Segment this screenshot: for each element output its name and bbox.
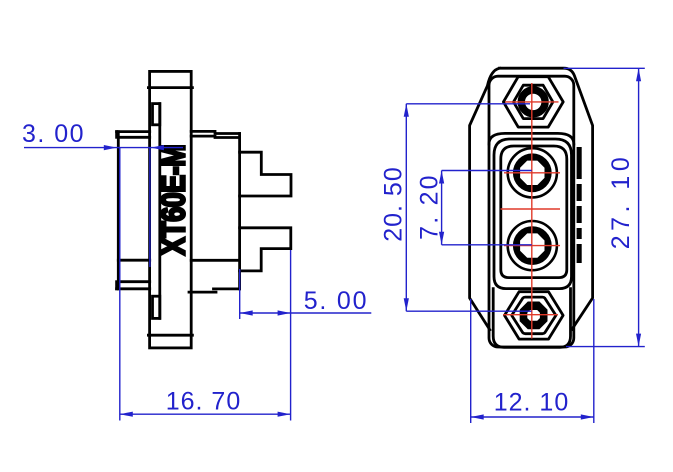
arrow 27.10 top	[636, 68, 641, 81]
dim 3.00 line	[24, 147, 183, 149]
svg-text:27. 10: 27. 10	[607, 153, 635, 250]
arrow 3.00 right (points left to face)	[151, 145, 164, 150]
arrowheads	[104, 68, 641, 419]
nut boss profile top	[153, 104, 160, 125]
svg-text:12. 10: 12. 10	[494, 389, 570, 417]
arrow 20.50 bottom	[404, 298, 409, 311]
raised center pad (full height rounded rect)	[489, 76, 574, 347]
shroud top inner line	[118, 136, 149, 139]
ext line left shared (3.00/16.70)	[119, 148, 121, 421]
nut boss profile bottom	[153, 296, 160, 318]
shroud bottom inner line	[118, 280, 149, 283]
arrow 3.00 left (points right to face)	[104, 145, 117, 150]
dim 7.20 line	[441, 171, 443, 245]
housing outer	[494, 139, 572, 289]
ext line 3.00 right	[149, 148, 151, 267]
flange top cap line	[148, 86, 192, 89]
arrow 16.70 right	[278, 412, 291, 417]
arrow 12.10 left	[471, 414, 484, 419]
top hex horizontal centerline	[505, 101, 559, 103]
ext 7.20 top	[442, 170, 532, 172]
top contact horizontal centerline	[504, 172, 560, 174]
hex nut top inner	[514, 85, 553, 118]
upper prong outline	[240, 152, 291, 196]
body top lip lower	[191, 136, 239, 137]
dim 5.00 line	[240, 312, 372, 314]
ext 27.10 bottom	[566, 346, 645, 348]
svg-text:XT60E-M: XT60E-M	[156, 145, 192, 256]
main vertical centerline	[531, 83, 533, 339]
contact bottom thick ring with octagonal hole	[513, 226, 552, 265]
collar arc where housing meets pad	[489, 133, 574, 144]
ext 12.10 right	[593, 299, 595, 423]
bottom nut octagon ring	[520, 302, 548, 330]
hex nut bottom washer (rounded hexagon)	[512, 297, 556, 334]
ext line right shared (5.00/16.70)	[290, 250, 292, 421]
arrow 7.20 bottom	[439, 232, 444, 245]
dim 27.10 line	[638, 68, 640, 346]
shroud bottom lip line	[117, 287, 150, 290]
hex nut top outer	[503, 77, 563, 127]
contact top outer circle	[508, 148, 557, 197]
svg-text:16. 70: 16. 70	[166, 388, 242, 416]
lower prong outline	[240, 228, 291, 271]
ext 20.50 bottom	[406, 310, 531, 312]
shroud lower line	[118, 259, 149, 262]
flange inner vertical	[158, 104, 161, 319]
body bottom edge right part	[214, 287, 240, 290]
side rib dashes	[577, 147, 582, 263]
arrow 7.20 top	[439, 171, 444, 184]
contact top thick ring with octagonal hole	[513, 153, 552, 192]
bottom contact horizontal centerline	[504, 245, 560, 247]
shroud left face	[117, 132, 120, 289]
housing inner	[501, 146, 567, 278]
mounting plate octagon outline	[470, 68, 593, 330]
flange plate outline	[150, 71, 192, 348]
ext line 5.00 left	[239, 269, 241, 319]
ext 7.20 bottom	[442, 244, 532, 246]
top nut thick ring	[521, 90, 545, 114]
ext 27.10 top	[564, 67, 645, 69]
body bottom step line	[191, 259, 239, 262]
arrow 5.00 left	[240, 310, 253, 315]
svg-text:5. 00: 5. 00	[304, 287, 369, 315]
arrow 27.10 bottom	[636, 334, 641, 347]
dim 16.70 line	[120, 413, 291, 415]
svg-text:20. 50: 20. 50	[379, 166, 407, 242]
arrow 20.50 top	[404, 104, 409, 117]
arrow 12.10 right	[581, 414, 594, 419]
shroud top lip line	[117, 130, 150, 133]
body right wall	[238, 134, 241, 289]
ext 20.50 top	[406, 103, 530, 105]
dim 20.50 line	[405, 104, 407, 311]
dimension texts	[22, 120, 635, 417]
flange bottom cap line	[148, 334, 192, 337]
arrow 16.70 left	[120, 412, 133, 417]
dim 12.10 line	[471, 416, 594, 418]
contact bottom outer circle	[508, 221, 557, 270]
shroud lip outer edge bottom	[115, 282, 118, 289]
svg-text:7. 20: 7. 20	[416, 173, 444, 240]
label XT60E-M on flange	[156, 145, 192, 256]
bottom boss	[493, 289, 570, 348]
svg-text:3. 00: 3. 00	[22, 120, 85, 148]
bottom hex horizontal centerline	[503, 314, 558, 316]
ext 12.10 left	[470, 299, 472, 423]
body bottom edge left part	[189, 291, 216, 294]
shroud lip outer edge top	[115, 132, 118, 138]
body top lip upper	[191, 131, 239, 133]
arrow 5.00 right	[278, 310, 291, 315]
hex nut bottom outer	[505, 292, 564, 339]
middle horizontal centerline	[501, 208, 561, 210]
